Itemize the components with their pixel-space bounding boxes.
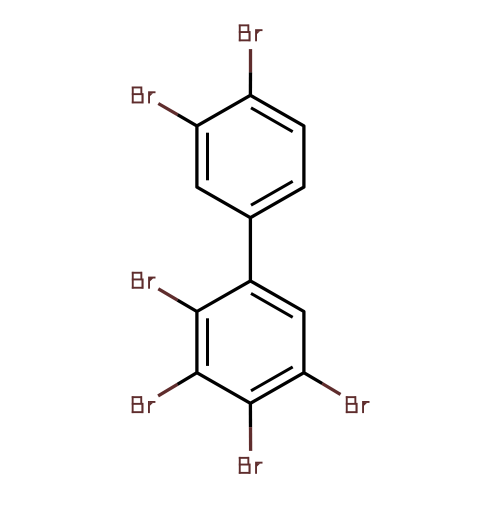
atom Br label at C2 (left upper) (132, 272, 156, 289)
bond C4-Br carbon half (249, 403, 252, 427)
atom Br label at C4 (bottom) (239, 457, 263, 474)
atom Br label at C3' (upper left) (132, 87, 156, 104)
bond C5-Br bromine half (322, 384, 340, 395)
bond C3-Br bromine half (158, 384, 177, 396)
double bond inner line C4=C5 (bottom ring SE edge) (251, 367, 293, 391)
bond C2-Br carbon half (178, 300, 197, 311)
atom Br label at C3 (left lower) (132, 396, 156, 413)
bond C4-Br bromine half (249, 427, 252, 451)
bond C4'-Br bromine half (249, 49, 252, 72)
bond C5-Br carbon half (304, 373, 322, 384)
bond C4'-Br carbon half (249, 72, 252, 95)
benzene ring A (top ring C1'-C6') (197, 95, 304, 217)
atom Br label at C5 (right) (346, 396, 370, 413)
bond C2-Br bromine half (158, 289, 177, 300)
bond C3'-Br carbon half (178, 115, 197, 126)
bond C3'-Br bromine half (158, 104, 177, 115)
bond C3-Br carbon half (178, 373, 197, 385)
double bond inner line C6'=C1' (top ring SE edge) (251, 181, 293, 205)
biphenyl single bond C1'-C1 (inter-ring) (249, 218, 252, 281)
atom Br label at C4' (top) (239, 24, 263, 41)
double bond inner line C1=C6 (bottom ring NE edge) (251, 293, 293, 317)
double bond inner line C4'=C5' (top ring NE edge) (251, 108, 293, 132)
benzene ring B (bottom ring C1-C6) (197, 281, 304, 403)
double bond inner line C2=C3 (bottom ring W edge) (206, 318, 209, 366)
double bond inner line C2'=C3' (top ring W edge) (206, 133, 209, 181)
